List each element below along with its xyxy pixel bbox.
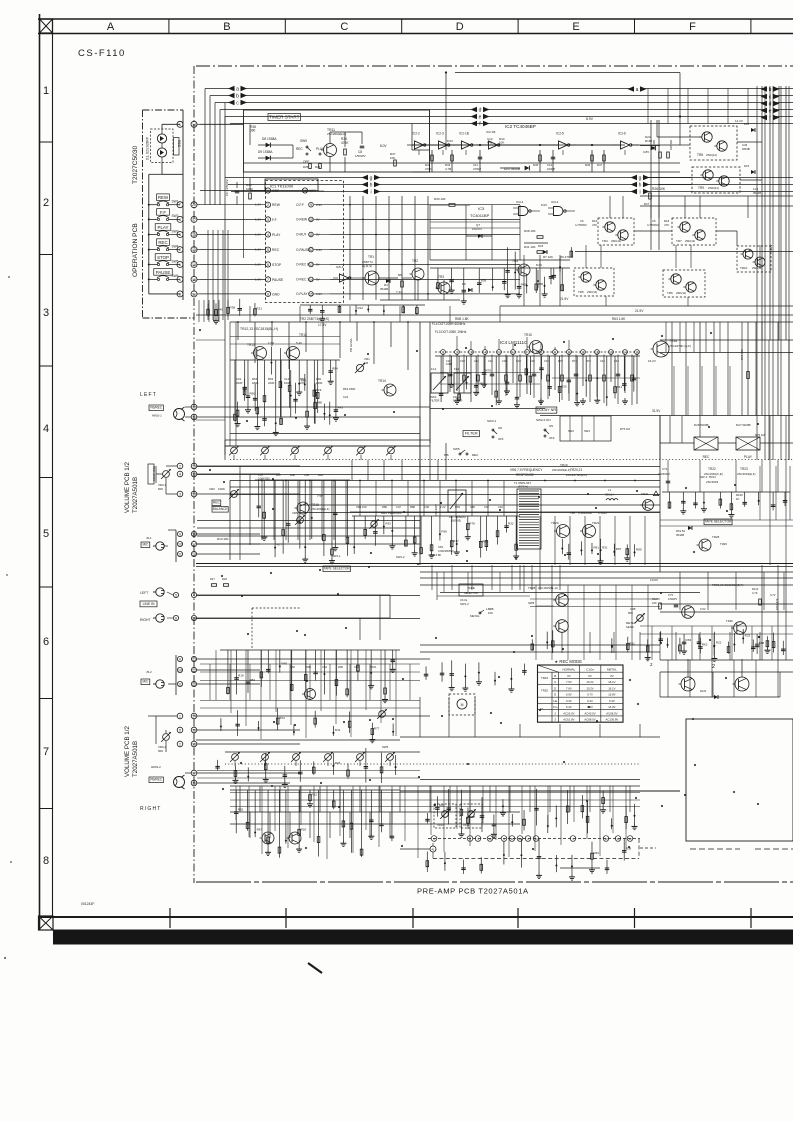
svg-text:1: 1 — [267, 189, 269, 193]
vol pin 3 — [177, 491, 183, 497]
svg-text:14.9V: 14.9V — [608, 705, 615, 709]
page frame bottom border line — [38, 916, 793, 918]
svg-text:R70: R70 — [558, 359, 563, 363]
svg-text:D27 W03B: D27 W03B — [736, 423, 751, 427]
svg-text:METAL: METAL — [470, 614, 480, 618]
svg-text:8.0V: 8.0V — [536, 263, 542, 267]
svg-text:R18: R18 — [469, 815, 475, 819]
bus right edge labels — [761, 86, 768, 92]
tape row verticals — [431, 565, 433, 590]
R27/R37b cluster — [649, 193, 652, 199]
svg-text:2SD(11): 2SD(11) — [611, 239, 621, 243]
IC1 dashed box — [266, 181, 344, 303]
wire from LEDs to bus — [161, 163, 163, 175]
svg-text:R168: R168 — [645, 139, 653, 143]
svg-text:C34: C34 — [488, 359, 493, 363]
R35/R36 pair — [309, 164, 312, 169]
svg-text:MIC: MIC — [142, 543, 149, 547]
svg-text:VOLUME PCB 1/2: VOLUME PCB 1/2 — [124, 726, 131, 777]
svg-text:D26 W03B: D26 W03B — [694, 423, 709, 427]
bottom pin 41 — [430, 846, 436, 852]
area8 cluster — [425, 666, 427, 679]
svg-text:0.0033/50WV: 0.0033/50WV — [438, 549, 454, 553]
transistor TR9b — [719, 176, 729, 186]
switch SW5 symbol — [157, 263, 159, 265]
svg-text:9: 9 — [179, 533, 181, 537]
svg-text:B: B — [554, 674, 556, 678]
svg-text:C30: C30 — [460, 359, 465, 363]
register mark box top-left — [40, 19, 53, 33]
wire OSC loop — [243, 172, 245, 258]
svg-text:OSC: OSC — [272, 189, 280, 193]
svg-text:1S2473: 1S2473 — [472, 227, 482, 231]
svg-text:0V: 0V — [610, 674, 614, 678]
svg-text:R12: R12 — [311, 793, 317, 797]
svg-text:0544B: 0544B — [380, 287, 388, 291]
IC1 VCC pin — [302, 188, 307, 193]
svg-text:R45: R45 — [521, 282, 527, 286]
svg-text:2SC2603(E,F): 2SC2603(E,F) — [737, 472, 756, 476]
svg-text:R38: R38 — [230, 305, 236, 309]
svg-text:h: h — [370, 183, 373, 189]
connector pin 2/15 at y=249.6 — [177, 247, 183, 253]
IC4 pin 15 — [635, 350, 640, 355]
MIC label box right ch — [141, 679, 150, 685]
svg-text:TR15: TR15 — [524, 333, 532, 337]
svg-text:RESPONSE: RESPONSE — [516, 473, 534, 477]
svg-text:C54: C54 — [322, 665, 327, 669]
svg-text:SW2: SW2 — [568, 429, 574, 433]
svg-text:C47: C47 — [396, 505, 401, 509]
svg-text:Ha: Ha — [553, 699, 557, 703]
svg-text:R101: R101 — [370, 665, 377, 669]
svg-text:IC2-6: IC2-6 — [618, 132, 626, 136]
svg-text:4.7/50WV: 4.7/50WV — [647, 223, 659, 227]
svg-text:5: 5 — [179, 729, 181, 733]
head2 pins — [191, 770, 197, 776]
svg-text:R75 1M: R75 1M — [620, 427, 630, 431]
svg-text:ON: ON — [549, 424, 553, 428]
svg-text:9: 9 — [179, 658, 181, 662]
svg-text:16: 16 — [192, 729, 196, 733]
svg-text:D18: D18 — [538, 244, 544, 248]
bottom dashed L wire — [432, 843, 434, 846]
bottom extra verticals — [235, 786, 237, 820]
svg-text:2SD(11): 2SD(11) — [676, 291, 686, 295]
IC1 pin 7 PAUSE — [265, 277, 270, 282]
svg-text:R88: R88 — [759, 641, 765, 645]
svg-text:C6: C6 — [580, 219, 584, 223]
bus arrows g h i right — [631, 175, 638, 181]
svg-text:R20: R20 — [301, 827, 307, 831]
R42/R43 resistors — [431, 155, 434, 161]
analog band rail y436 — [225, 439, 430, 441]
bus wire row 3 left vertical — [214, 103, 216, 125]
svg-text:O-PLAY: O-PLAY — [296, 292, 308, 296]
svg-text:h: h — [639, 183, 642, 189]
dashed link line — [252, 607, 300, 609]
svg-text:REC: REC — [296, 147, 303, 151]
svg-text:2SC1815(BL,H): 2SC1815(BL,H) — [538, 586, 558, 590]
svg-text:1: 1 — [179, 715, 181, 719]
svg-text:TR9: TR9 — [698, 186, 704, 190]
mic sub box — [175, 530, 177, 562]
svg-text:SW1-1: SW1-1 — [332, 554, 341, 558]
svg-text:i: i — [370, 190, 371, 196]
svg-text:19: 19 — [192, 263, 196, 267]
svg-text:TR14: TR14 — [378, 379, 386, 383]
transistor TR13 — [287, 347, 300, 360]
mic wires — [197, 533, 260, 535]
TR21 transistor — [583, 525, 596, 538]
head pin 31 — [191, 414, 197, 420]
svg-text:15: 15 — [635, 351, 639, 355]
LINE IN label box — [140, 601, 157, 607]
svg-text:2: 2 — [712, 664, 715, 670]
svg-text:5.4V: 5.4V — [296, 341, 302, 345]
TR20 transistor — [557, 525, 570, 538]
bias pot dashed box 1 — [434, 804, 456, 828]
switch SW1 REW label box — [157, 194, 170, 201]
transistor TR15 — [530, 341, 543, 354]
svg-text:41: 41 — [431, 848, 435, 852]
main horizontal rail y=322 — [196, 314, 793, 316]
IC4 component forest — [435, 355, 640, 357]
tape row cluster right — [611, 638, 613, 651]
svg-text:3: 3 — [179, 493, 181, 497]
svg-text:4: 4 — [43, 423, 49, 435]
svg-text:C35: C35 — [502, 359, 507, 363]
svg-text:14: 14 — [192, 715, 196, 719]
tape band extra verticals — [535, 585, 537, 660]
svg-text:13: 13 — [192, 493, 196, 497]
svg-text:F.F: F.F — [272, 218, 277, 222]
svg-text:50K: 50K — [158, 487, 163, 491]
svg-text:FL4: FL4 — [431, 367, 437, 371]
indicator lamp dashed box — [151, 129, 174, 163]
svg-text:6: 6 — [267, 263, 269, 267]
svg-text:C67: C67 — [484, 505, 489, 509]
mid cluster under IC3 — [430, 267, 570, 269]
svg-text:L1: L1 — [608, 488, 612, 492]
svg-text:FILTER: FILTER — [465, 432, 478, 436]
svg-text:REC: REC — [272, 248, 280, 252]
svg-text:0V: 0V — [567, 674, 571, 678]
right ch cluster A — [220, 649, 400, 651]
IC4 pin 14 — [623, 350, 628, 355]
svg-text:REC: REC — [703, 455, 710, 459]
right long verticals full — [756, 86, 758, 460]
svg-text:R21: R21 — [256, 307, 262, 311]
svg-text:2: 2 — [179, 465, 181, 469]
bus wire row 1 — [205, 88, 793, 90]
svg-text:REW: REW — [158, 195, 169, 200]
connector pin 1/14 at y=124.3 — [177, 121, 183, 127]
svg-text:SW1-2: SW1-2 — [396, 555, 405, 559]
svg-text:0.8V: 0.8V — [643, 150, 649, 154]
svg-text:R94: R94 — [318, 473, 323, 477]
page frame left outer border — [39, 14, 41, 930]
TR32 transistor — [289, 832, 301, 844]
svg-text:10.2V: 10.2V — [586, 680, 593, 684]
vol pin 4 — [177, 471, 183, 477]
svg-text:4: 4 — [179, 473, 181, 477]
svg-text:31: 31 — [192, 416, 196, 420]
svg-text:C: C — [554, 680, 556, 684]
svg-text:47K: 47K — [592, 223, 597, 227]
svg-text:2SC2274K(E,F): 2SC2274K(E,F) — [566, 473, 587, 477]
wire from timer box to IC2 row — [412, 149, 430, 151]
REC MODE header slash — [538, 665, 559, 672]
svg-text:19.0V: 19.0V — [650, 578, 659, 582]
right band mesh extra — [640, 625, 793, 627]
D18 D19 diodes — [543, 250, 547, 254]
svg-text:R66: R66 — [249, 392, 255, 396]
right vertical rails top — [761, 86, 763, 340]
row rail right — [225, 751, 420, 753]
svg-text:10: 10 — [567, 351, 571, 355]
svg-text:8.0V: 8.0V — [318, 189, 324, 193]
svg-text:R90: R90 — [441, 529, 447, 533]
svg-text:10: 10 — [178, 669, 182, 673]
vol pin 2 — [177, 463, 183, 469]
svg-text:100P: 100P — [446, 362, 452, 366]
svg-text:2SD(11): 2SD(11) — [685, 239, 695, 243]
svg-text:TR12: TR12 — [247, 343, 255, 347]
bus wire row 5 left vertical — [224, 117, 226, 125]
svg-text:14: 14 — [309, 278, 313, 282]
svg-text:R17: R17 — [210, 577, 215, 581]
frequency trimmer row (left) — [231, 447, 238, 454]
volume pot VR3-1 — [163, 471, 170, 478]
svg-text:0.6V: 0.6V — [700, 607, 706, 611]
PB/REC label box right — [149, 777, 163, 783]
right band horizontals — [660, 339, 793, 341]
svg-text:1.2V: 1.2V — [440, 505, 446, 509]
svg-text:0.3V: 0.3V — [609, 699, 615, 703]
svg-text:IC2-3: IC2-3 — [436, 132, 444, 136]
bottom right empty box — [686, 719, 793, 841]
svg-text:O-REC 1: O-REC 1 — [296, 278, 309, 282]
svg-text:CT1: CT1 — [662, 467, 668, 471]
svg-text:R80: R80 — [317, 401, 323, 405]
svg-text:SW3-1: SW3-1 — [487, 419, 497, 423]
mic2 sub box — [175, 655, 177, 695]
line above IC1 y163 — [244, 162, 681, 164]
left column stub cluster — [207, 303, 209, 316]
svg-text:32: 32 — [192, 406, 196, 410]
svg-text:C68 820P: C68 820P — [434, 504, 438, 516]
IC4 forest ground row — [456, 398, 458, 401]
IC4 pin 9 — [553, 350, 558, 355]
bottom band rails — [400, 790, 680, 792]
svg-text:0.4V: 0.4V — [587, 699, 593, 703]
svg-text:R40: R40 — [217, 308, 223, 312]
TR29/30 wires — [660, 671, 793, 673]
svg-text:D16: D16 — [744, 122, 750, 126]
svg-text:PLAY: PLAY — [272, 233, 281, 237]
switch SW6 symbol — [157, 278, 159, 280]
IC1 mesh dots — [349, 204, 351, 206]
connector pin 6/19 at y=264.5 — [177, 262, 183, 268]
transistor TR12 — [254, 347, 267, 360]
operation PCB outline (dash-dot) — [143, 109, 184, 111]
svg-text:B: B — [223, 21, 230, 33]
svg-text:R99: R99 — [338, 665, 343, 669]
svg-text:TAPE SELECTOR: TAPE SELECTOR — [324, 567, 351, 571]
svg-text:1: 1 — [179, 278, 181, 282]
svg-text:R46: R46 — [585, 163, 591, 167]
svg-text:R63 1.8K: R63 1.8K — [612, 317, 626, 321]
svg-text:C81: C81 — [438, 545, 444, 549]
svg-text:R67: R67 — [276, 473, 281, 477]
svg-text:1.5V: 1.5V — [268, 341, 274, 345]
svg-text:2: 2 — [43, 197, 49, 209]
svg-text:2SD(11): 2SD(11) — [706, 153, 717, 157]
svg-text:C36: C36 — [530, 359, 535, 363]
transistor TR8b — [717, 141, 727, 151]
lower left mesh horizontals — [200, 663, 420, 665]
record band verticals — [261, 480, 263, 540]
scan edge black bar — [53, 930, 793, 945]
svg-text:14: 14 — [192, 123, 196, 127]
svg-text:R67: R67 — [257, 828, 263, 832]
svg-text:T2027A501B: T2027A501B — [132, 741, 139, 777]
svg-text:9: 9 — [310, 203, 312, 207]
svg-text:H801-2: H801-2 — [151, 765, 161, 769]
bias pot dashed box 2 — [460, 804, 482, 828]
svg-text:50K: 50K — [628, 611, 633, 615]
svg-text:16: 16 — [303, 189, 307, 193]
svg-text:LEFT: LEFT — [140, 392, 157, 398]
svg-text:T88: T88 — [570, 511, 575, 515]
svg-text:TAPE: TAPE — [467, 586, 475, 590]
svg-text:R31: R31 — [335, 728, 341, 732]
svg-text:5: 5 — [43, 528, 49, 540]
svg-text:C80: C80 — [470, 505, 475, 509]
IC4 pin 6 — [511, 350, 516, 355]
area3b small parts — [507, 247, 509, 291]
svg-text:J5-1: J5-1 — [146, 536, 152, 540]
vol2 pin rows — [177, 713, 183, 719]
jack pins — [173, 592, 178, 597]
IC4 forest mini-rails — [440, 372, 540, 374]
svg-text:STOP: STOP — [272, 263, 282, 267]
svg-text:C33: C33 — [516, 359, 521, 363]
svg-text:IC5-1: IC5-1 — [336, 265, 344, 269]
IC1 pin 1 OSC — [265, 188, 270, 193]
timer box internal wires — [249, 124, 251, 145]
IC4 pin 7 — [525, 350, 530, 355]
PLAY bridge box — [736, 437, 760, 450]
IC4 pin 4 — [483, 350, 488, 355]
svg-text:C23: C23 — [343, 395, 349, 399]
vertical wire x=446 (top feeder) — [445, 73, 447, 151]
bus arrow a (right group) — [628, 86, 635, 92]
svg-text:16: 16 — [192, 465, 196, 469]
record band rails — [197, 466, 660, 468]
REC BALANCE label box — [212, 500, 221, 506]
svg-text:17: 17 — [192, 218, 196, 222]
svg-text:1M: 1M — [364, 361, 369, 365]
svg-text:E: E — [572, 21, 579, 33]
svg-text:IC1 TK11000: IC1 TK11000 — [270, 184, 294, 189]
svg-text:NORMAL: NORMAL — [562, 667, 575, 671]
left margin speckles — [8, 276, 10, 278]
IC4 pin 10 — [567, 350, 572, 355]
rail y=322b — [230, 321, 793, 323]
svg-text:15: 15 — [192, 473, 196, 477]
svg-text:TR26: TR26 — [726, 619, 733, 623]
svg-text:PB/REC: PB/REC — [150, 778, 163, 782]
svg-text:CS-F110: CS-F110 — [78, 48, 126, 59]
svg-text:C48: C48 — [304, 473, 309, 477]
svg-text:R26: R26 — [335, 761, 341, 765]
svg-text:TR20,21: TR20,21 — [570, 468, 582, 472]
svg-text:SELECTOR: SELECTOR — [464, 591, 478, 595]
svg-text:2SC2603: 2SC2603 — [706, 480, 718, 484]
PB/REC label box left — [149, 405, 163, 411]
svg-text:SW 4. TR24: SW 4. TR24 — [700, 475, 716, 479]
svg-text:C37: C37 — [544, 359, 549, 363]
bottom strip row2 — [426, 851, 428, 871]
svg-text:g: g — [639, 176, 642, 182]
svg-text:R47: R47 — [597, 163, 603, 167]
svg-text:D8 1S88A: D8 1S88A — [262, 137, 277, 141]
svg-text:TC4011BP: TC4011BP — [470, 213, 490, 218]
right ch mid rails — [200, 700, 420, 702]
IC4 pin 2 — [455, 350, 460, 355]
register mark box bottom-left — [39, 916, 54, 930]
svg-text:R45: R45 — [533, 163, 539, 167]
svg-text:PAUSE: PAUSE — [272, 278, 284, 282]
svg-text:R89: R89 — [636, 547, 642, 551]
TR3 transistor mid — [518, 264, 530, 276]
svg-text:OPERATION PCB: OPERATION PCB — [132, 223, 139, 277]
REC MODE header row line — [538, 671, 624, 673]
svg-text:R41 10K: R41 10K — [524, 245, 536, 249]
TR18 transistor — [297, 502, 309, 514]
head pin 32 — [191, 404, 197, 410]
svg-text:TR25: TR25 — [541, 689, 548, 693]
svg-text:PAUSE: PAUSE — [156, 270, 171, 275]
long vertical feeders mid — [419, 443, 421, 480]
svg-text:R82: R82 — [249, 678, 255, 682]
svg-text:AC68.0V: AC68.0V — [606, 711, 617, 715]
svg-text:31.9V: 31.9V — [652, 409, 661, 413]
svg-text:14.2V: 14.2V — [735, 119, 743, 123]
far right vertical stubs — [759, 466, 761, 520]
svg-text:R88: R88 — [290, 473, 295, 477]
vol2 pot VR9-2 — [163, 734, 170, 741]
svg-text:2SC2603(E,F): 2SC2603(E,F) — [311, 507, 330, 511]
svg-text:R19 39K: R19 39K — [217, 537, 229, 541]
tape row cluster — [531, 639, 533, 650]
svg-text:R54: R54 — [279, 716, 285, 720]
svg-text:F.F: F.F — [160, 210, 166, 215]
area3b wires — [609, 196, 611, 218]
FL1 filter box — [448, 490, 466, 512]
svg-text:5: 5 — [267, 248, 269, 252]
svg-text:SW4: SW4 — [584, 429, 590, 433]
svg-text:6: 6 — [175, 617, 177, 621]
svg-text:REC: REC — [177, 140, 181, 148]
connector pin 8/21 at y=293.9 — [177, 291, 183, 297]
svg-text:C78: C78 — [258, 473, 263, 477]
svg-text:R43: R43 — [337, 406, 343, 410]
svg-text:D22 0544B: D22 0544B — [504, 167, 520, 171]
svg-text:16.1V: 16.1V — [608, 686, 615, 690]
